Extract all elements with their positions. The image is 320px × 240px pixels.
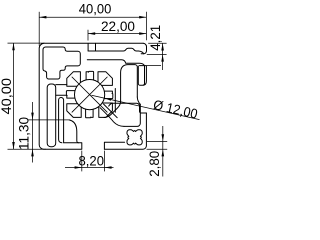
arrows left 40 (12, 43, 15, 50)
ext line left top (38, 12, 40, 46)
svg-text:4,21: 4,21 (148, 25, 163, 51)
dim 22 line (88, 33, 146, 35)
ext line 22 left (87, 30, 89, 41)
corner cavity (43, 47, 80, 79)
ext 65.6 (147, 65, 161, 67)
leader arrow (104, 98, 111, 101)
cross line 1 (72, 77, 107, 112)
ext left bottom (8, 148, 47, 150)
arrows 2.80 outside (162, 134, 165, 141)
left cavity C2 (59, 98, 64, 143)
clover screw channel (127, 130, 142, 145)
top face slit (88, 43, 95, 51)
arrows 4.21 both up (161, 43, 164, 50)
right inner wall (114, 89, 116, 113)
right face upper lip segment (139, 66, 146, 86)
left web lines (56, 85, 67, 96)
top channel upper wall (88, 48, 144, 54)
ext line right top (145, 12, 147, 40)
dim top 40 line (39, 16, 146, 18)
svg-text:11,30: 11,30 (17, 117, 32, 150)
cross line 2 (72, 77, 107, 112)
bl diag web line (100, 104, 124, 126)
ext 11.30 top (28, 119, 69, 121)
ext left top (8, 42, 45, 44)
svg-text:2,80: 2,80 (147, 151, 162, 177)
top-right corner lip (141, 43, 146, 54)
right big cavity (121, 65, 138, 101)
bottom slot cavity (69, 120, 124, 149)
top channel lower wall (87, 60, 144, 66)
foot cavity (109, 103, 147, 126)
dim 4.21 (147, 43, 167, 70)
diag channel BR (104, 97, 140, 118)
core bore circle (75, 80, 105, 110)
arrows 22 (88, 32, 95, 35)
svg-text:8,20: 8,20 (79, 153, 105, 168)
dim left 40 line (13, 43, 15, 149)
svg-text:40,00: 40,00 (79, 1, 112, 16)
core castellated outline (66, 71, 112, 117)
dim 8.20 (65, 151, 114, 172)
svg-text:22,00: 22,00 (101, 19, 135, 34)
svg-text:40,00: 40,00 (0, 78, 14, 115)
arrows 8.20 outside (75, 166, 82, 169)
right narrow channel (138, 66, 144, 85)
left cavity C1 (47, 84, 56, 147)
bottom face and right foot (104, 113, 146, 149)
dim 11.30 line (32, 102, 34, 163)
leader line (92, 95, 200, 119)
arrows top 40 (39, 16, 46, 19)
dim 2.80 (147, 126, 168, 177)
arrows 11.30 outside (31, 113, 34, 120)
profile outer contour (39, 43, 143, 149)
